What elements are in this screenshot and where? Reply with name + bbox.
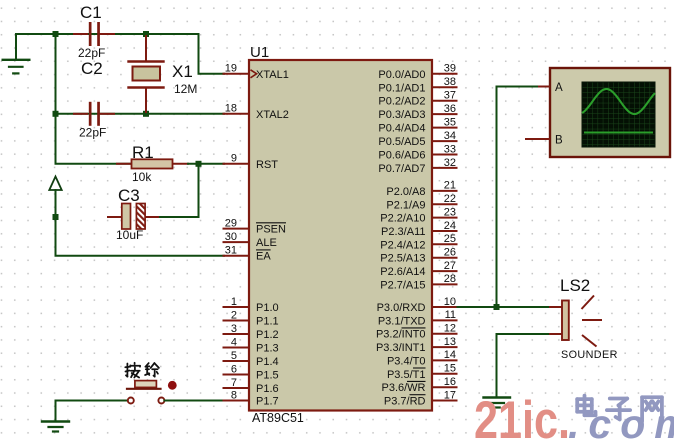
svg-text:9: 9 bbox=[231, 153, 237, 165]
svg-text:P1.3: P1.3 bbox=[256, 343, 279, 355]
capacitor C1 bbox=[74, 3, 114, 60]
svg-text:P2.5/A13: P2.5/A13 bbox=[380, 253, 425, 265]
svg-text:R1: R1 bbox=[132, 143, 154, 162]
svg-text:21: 21 bbox=[444, 180, 456, 192]
node: junction top rail / crystal top bbox=[143, 31, 149, 37]
U1 pin 6 P1.5 bbox=[223, 363, 279, 381]
U1 pin 33 P0.6/AD6 bbox=[378, 143, 457, 161]
node: junction C2 row / crystal bottom bbox=[143, 111, 149, 117]
svg-text:10k: 10k bbox=[132, 170, 152, 184]
U1 pin 4 P1.3 bbox=[223, 336, 279, 354]
svg-text:P0.5/AD5: P0.5/AD5 bbox=[378, 136, 425, 148]
svg-text:X1: X1 bbox=[172, 62, 193, 81]
svg-text:P3.0/RXD: P3.0/RXD bbox=[377, 302, 426, 314]
wire: sounder bottom to ground bbox=[497, 334, 550, 397]
U1 pin 26 P2.5/A13 bbox=[380, 247, 457, 265]
svg-text:23: 23 bbox=[444, 206, 456, 218]
svg-text:8: 8 bbox=[231, 389, 237, 401]
svg-text:P3.5/T1: P3.5/T1 bbox=[387, 369, 426, 381]
svg-text:19: 19 bbox=[225, 63, 237, 75]
U1 pin 32 P0.7/AD7 bbox=[378, 157, 457, 175]
node: junction C3 row / EA branch / power arrow bbox=[53, 214, 59, 220]
svg-text:C2: C2 bbox=[81, 59, 103, 78]
svg-text:P0.3/AD3: P0.3/AD3 bbox=[378, 109, 425, 121]
svg-text:XTAL2: XTAL2 bbox=[256, 109, 289, 121]
svg-text:C1: C1 bbox=[80, 3, 102, 22]
svg-text:5: 5 bbox=[231, 350, 237, 362]
svg-text:P3.6/WR: P3.6/WR bbox=[381, 382, 425, 394]
svg-text:26: 26 bbox=[444, 247, 456, 259]
svg-text:P3.3/INT1: P3.3/INT1 bbox=[376, 342, 426, 354]
U1 pin 10 P3.0/RXD bbox=[377, 296, 458, 314]
svg-text:22pF: 22pF bbox=[79, 126, 106, 140]
svg-text:3: 3 bbox=[231, 323, 237, 335]
U1 pin 34 P0.5/AD5 bbox=[378, 130, 457, 148]
node: junction top rail / left rail bbox=[53, 31, 59, 37]
capacitor C3 10uF (polarized) bbox=[108, 186, 158, 242]
svg-text:A: A bbox=[555, 82, 563, 94]
svg-text:21ic.: 21ic. bbox=[474, 391, 570, 441]
U1 pin 24 P2.3/A11 bbox=[381, 220, 457, 238]
node: junction scope branch / sounder row bbox=[494, 304, 500, 310]
U1 pin 13 P3.3/INT1 bbox=[376, 336, 458, 354]
U1 pin 17 P3.7/RD bbox=[384, 389, 458, 407]
svg-text:.com: .com bbox=[568, 401, 674, 441]
svg-text:10: 10 bbox=[444, 296, 456, 308]
U1 pin 15 P3.5/T1 bbox=[387, 363, 458, 381]
U1 pin 1 P1.0 bbox=[223, 296, 279, 314]
svg-text:C3: C3 bbox=[118, 186, 140, 205]
svg-text:12M: 12M bbox=[174, 82, 197, 96]
U1 pin 12 P3.2/INT0 bbox=[376, 323, 458, 341]
svg-text:LS2: LS2 bbox=[560, 276, 590, 295]
svg-text:P2.2/A10: P2.2/A10 bbox=[380, 213, 425, 225]
svg-text:30: 30 bbox=[225, 231, 237, 243]
ground (below sounder) bbox=[484, 398, 511, 408]
svg-text:P1.5: P1.5 bbox=[256, 370, 279, 382]
sounder LS2 bbox=[549, 276, 618, 361]
wire: button right to P1.7 pin bbox=[164, 400, 224, 402]
svg-text:U1: U1 bbox=[250, 44, 269, 61]
svg-text:B: B bbox=[555, 135, 563, 147]
U1 pin 5 P1.4 bbox=[223, 350, 279, 368]
svg-text:P3.2/INT0: P3.2/INT0 bbox=[376, 329, 426, 341]
U1 pin 18 XTAL2 bbox=[223, 103, 289, 121]
svg-text:P2.4/A12: P2.4/A12 bbox=[380, 239, 425, 251]
U1 pin 31 EA bbox=[223, 245, 272, 263]
svg-text:12: 12 bbox=[444, 323, 456, 335]
U1 pin 39 P0.0/AD0 bbox=[378, 63, 457, 81]
push button 按铃 bbox=[127, 381, 177, 404]
U1 pin 28 P2.7/A15 bbox=[380, 273, 457, 291]
U1 pin 7 P1.6 bbox=[223, 377, 279, 395]
svg-text:P2.3/A11: P2.3/A11 bbox=[381, 226, 425, 238]
svg-text:35: 35 bbox=[444, 116, 456, 128]
svg-text:P0.0/AD0: P0.0/AD0 bbox=[378, 69, 425, 81]
svg-text:P2.6/A14: P2.6/A14 bbox=[380, 266, 425, 278]
U1 pin 37 P0.2/AD2 bbox=[378, 90, 457, 108]
svg-text:RST: RST bbox=[256, 159, 278, 171]
svg-text:10uF: 10uF bbox=[116, 228, 143, 242]
svg-text:33: 33 bbox=[444, 143, 456, 155]
svg-text:P1.4: P1.4 bbox=[256, 356, 279, 368]
svg-text:P3.4/T0: P3.4/T0 bbox=[387, 355, 426, 367]
svg-text:P1.0: P1.0 bbox=[256, 302, 279, 314]
U1 pin 21 P2.0/A8 bbox=[386, 180, 457, 198]
svg-text:17: 17 bbox=[444, 389, 456, 401]
U1 pin 2 P1.1 bbox=[223, 309, 279, 327]
wire: RST junction down to C3 row bbox=[158, 164, 199, 217]
svg-text:P2.0/A8: P2.0/A8 bbox=[386, 186, 425, 198]
svg-text:P1.7: P1.7 bbox=[256, 396, 279, 408]
oscilloscope display block bbox=[525, 68, 670, 157]
svg-text:13: 13 bbox=[444, 336, 456, 348]
svg-text:P0.1/AD1: P0.1/AD1 bbox=[378, 82, 425, 94]
wire: P0 area to scope channel A bbox=[497, 87, 542, 308]
svg-text:P3.7/RD: P3.7/RD bbox=[384, 396, 426, 408]
crystal X1 12M bbox=[129, 36, 198, 112]
svg-text:1: 1 bbox=[231, 296, 237, 308]
svg-text:EA: EA bbox=[256, 251, 271, 263]
svg-text:37: 37 bbox=[444, 90, 456, 102]
svg-text:P0.6/AD6: P0.6/AD6 bbox=[378, 150, 425, 162]
svg-text:P2.7/A15: P2.7/A15 bbox=[380, 279, 425, 291]
svg-text:P0.2/AD2: P0.2/AD2 bbox=[378, 96, 425, 108]
svg-text:4: 4 bbox=[231, 336, 237, 348]
U1 pin 19 XTAL1 bbox=[223, 63, 289, 81]
U1 pin 38 P0.1/AD1 bbox=[378, 76, 457, 94]
label 按铃 (doorbell) bbox=[125, 363, 159, 378]
U1 pin 14 P3.4/T0 bbox=[387, 349, 458, 367]
svg-text:27: 27 bbox=[444, 260, 456, 272]
svg-text:36: 36 bbox=[444, 103, 456, 115]
wire: C2 row to XTAL2 pin bbox=[56, 113, 225, 115]
IC U1 AT89C51 body bbox=[249, 44, 432, 425]
resistor R1 10k bbox=[117, 143, 188, 184]
svg-text:29: 29 bbox=[225, 217, 237, 229]
svg-text:P0.4/AD4: P0.4/AD4 bbox=[378, 123, 425, 135]
svg-text:31: 31 bbox=[225, 245, 237, 257]
U1 pin 36 P0.3/AD3 bbox=[378, 103, 457, 121]
svg-text:22: 22 bbox=[444, 193, 456, 205]
svg-text:P2.1/A9: P2.1/A9 bbox=[386, 199, 425, 211]
ground (bottom left) bbox=[42, 422, 69, 432]
U1 pin 8 P1.7 bbox=[223, 389, 279, 407]
U1 pin 25 P2.4/A12 bbox=[380, 233, 457, 251]
U1 pin 3 P1.2 bbox=[223, 323, 279, 341]
svg-text:SOUNDER: SOUNDER bbox=[561, 349, 618, 361]
svg-text:P1.2: P1.2 bbox=[256, 329, 279, 341]
svg-text:P3.1/TXD: P3.1/TXD bbox=[378, 315, 426, 327]
svg-text:22pF: 22pF bbox=[78, 46, 105, 60]
wire: C3 junction down to EA pin bbox=[56, 217, 225, 256]
watermark 21ic.com 电子网 bbox=[474, 391, 674, 441]
svg-text:ALE: ALE bbox=[256, 237, 277, 249]
wire: P3.0 to sounder bbox=[458, 306, 550, 308]
svg-text:P0.7/AD7: P0.7/AD7 bbox=[378, 163, 425, 175]
capacitor C2 bbox=[74, 59, 114, 140]
svg-text:7: 7 bbox=[231, 377, 237, 389]
svg-text:P1.6: P1.6 bbox=[256, 383, 279, 395]
wire: R1 right to RST pin bbox=[188, 163, 224, 165]
U1 pin 23 P2.2/A10 bbox=[380, 206, 457, 224]
node: junction RST row / C3 branch bbox=[196, 161, 202, 167]
wire: button left to ground bbox=[56, 400, 129, 402]
power terminal (up arrow) bbox=[49, 177, 61, 218]
svg-text:11: 11 bbox=[445, 309, 456, 321]
wire: left vertical rail C1->C2->RST row bbox=[56, 34, 132, 164]
svg-text:25: 25 bbox=[444, 233, 456, 245]
svg-text:6: 6 bbox=[231, 363, 237, 375]
svg-text:24: 24 bbox=[444, 220, 456, 232]
svg-text:15: 15 bbox=[444, 363, 456, 375]
ground (top left) bbox=[3, 60, 30, 74]
svg-text:AT89C51: AT89C51 bbox=[252, 411, 304, 425]
svg-text:2: 2 bbox=[231, 309, 237, 321]
svg-text:39: 39 bbox=[444, 63, 456, 75]
U1 pin 35 P0.4/AD4 bbox=[378, 116, 457, 134]
svg-text:38: 38 bbox=[444, 76, 456, 88]
U1 pin 16 P3.6/WR bbox=[381, 376, 457, 394]
svg-text:16: 16 bbox=[444, 376, 456, 388]
U1 pin 27 P2.6/A14 bbox=[380, 260, 457, 278]
U1 pin 30 ALE bbox=[223, 231, 277, 249]
svg-text:XTAL1: XTAL1 bbox=[256, 69, 289, 81]
svg-text:P1.1: P1.1 bbox=[256, 316, 279, 328]
svg-text:PSEN: PSEN bbox=[256, 224, 286, 236]
wire: top rail from ground to XTAL1 pin bbox=[16, 34, 224, 74]
svg-text:14: 14 bbox=[444, 349, 456, 361]
node: junction C2 row / left rail bbox=[53, 111, 59, 117]
svg-text:18: 18 bbox=[225, 103, 237, 115]
svg-text:28: 28 bbox=[444, 273, 456, 285]
U1 pin 29 PSEN bbox=[223, 217, 287, 235]
U1 pin 22 P2.1/A9 bbox=[386, 193, 457, 211]
U1 pin 11 P3.1/TXD bbox=[378, 309, 458, 327]
svg-text:32: 32 bbox=[444, 157, 456, 169]
svg-text:34: 34 bbox=[444, 130, 456, 142]
U1 pin 9 RST bbox=[223, 153, 279, 171]
